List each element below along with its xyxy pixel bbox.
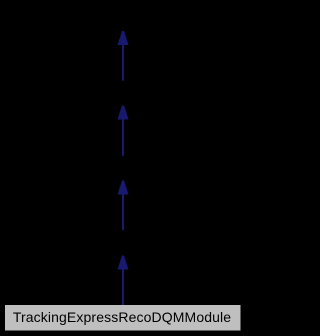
svg-text:TrackingExpressRecoDQMModule: TrackingExpressRecoDQMModule (13, 309, 231, 325)
